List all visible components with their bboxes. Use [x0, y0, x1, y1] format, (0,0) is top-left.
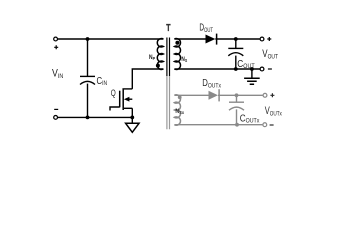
wire NS bottom rail	[174, 68, 260, 70]
node junction COUT bottom	[234, 67, 238, 71]
svg-text:Q: Q	[111, 88, 116, 98]
wire top rail	[58, 38, 163, 40]
primary winding NP	[157, 39, 163, 70]
wire bottom rail	[58, 116, 132, 118]
ground (chassis triangle)	[126, 123, 139, 132]
wire NSx bottom rail	[174, 124, 262, 126]
node junction top of CIN	[86, 37, 90, 41]
svg-text:T: T	[166, 23, 170, 34]
secondary winding NSx (dimmed)	[174, 95, 180, 125]
plus mark output	[267, 37, 271, 41]
wire COUT bottom lead	[235, 56, 237, 69]
wire diode to + terminal	[215, 38, 259, 40]
wire to ground	[131, 117, 133, 123]
primary phase dot	[156, 64, 160, 68]
node junction COUT top	[234, 37, 238, 41]
node junction COUTx bottom	[235, 123, 239, 127]
output terminal +x	[263, 93, 267, 97]
wire ground stub	[251, 69, 253, 78]
wire CIN bottom lead	[87, 84, 89, 118]
plus mark at input	[54, 45, 58, 49]
node junction COUTx top	[235, 93, 239, 97]
wire NS top to diode	[174, 38, 205, 40]
transformer core	[167, 38, 170, 77]
wire COUT top lead	[235, 39, 237, 48]
wire COUTx top lead	[236, 95, 238, 102]
capacitor COUTx (dimmed)	[229, 102, 244, 110]
output terminal +	[260, 37, 264, 41]
node source junction	[130, 116, 134, 120]
wire NSx top to diode	[174, 94, 208, 96]
wire CIN top lead	[87, 39, 89, 76]
wire diode to +x terminal	[218, 94, 263, 96]
capacitor CIN	[80, 76, 95, 84]
node junction ground	[250, 67, 254, 71]
node junction bottom of CIN	[86, 116, 90, 120]
minus mark output	[268, 68, 272, 70]
NS phase dot	[175, 41, 179, 45]
minus mark at input	[54, 108, 58, 110]
transistor Q1 mosfet	[110, 69, 163, 117]
diode DOUT	[206, 35, 216, 44]
wire COUTx bottom lead	[236, 109, 238, 124]
input terminal - (bottom left)	[54, 116, 58, 120]
mosfet body arrow	[124, 97, 129, 102]
diode DOUTx (dimmed)	[209, 91, 219, 100]
input terminal + (top left)	[54, 37, 58, 41]
minus mark output x	[270, 124, 274, 126]
secondary winding NS	[174, 39, 180, 70]
capacitor COUT	[228, 48, 243, 55]
output terminal -x	[263, 123, 267, 127]
plus mark output x	[270, 93, 274, 97]
ground (earth)	[244, 78, 260, 84]
output terminal -	[260, 67, 264, 71]
NSx phase dot	[178, 95, 182, 99]
